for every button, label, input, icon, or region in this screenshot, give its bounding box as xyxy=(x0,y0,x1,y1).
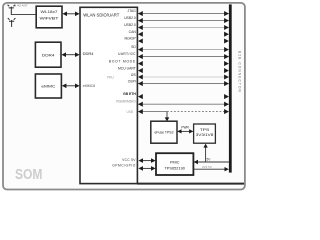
svg-text:MCU UART: MCU UART xyxy=(118,66,136,70)
svg-text:eMMC: eMMC xyxy=(41,84,55,88)
svg-text:SD: SD xyxy=(131,45,136,49)
svg-text:SOM: SOM xyxy=(15,166,43,183)
svg-text:TPS: TPS xyxy=(200,128,211,132)
svg-text:VCC 5V: VCC 5V xyxy=(122,158,136,162)
svg-text:UART/I2C: UART/I2C xyxy=(118,52,136,56)
svg-text:GB ETH: GB ETH xyxy=(123,92,136,96)
svg-text:PRU: PRU xyxy=(107,76,114,80)
svg-text:3V3/1V8: 3V3/1V8 xyxy=(196,133,214,137)
svg-text:WLAN SDIO/UART: WLAN SDIO/UART xyxy=(83,12,119,17)
svg-text:USB: USB xyxy=(126,110,133,114)
svg-text:CAN: CAN xyxy=(129,30,137,34)
svg-text:PWR: PWR xyxy=(181,126,189,130)
svg-text:WiFi/BT: WiFi/BT xyxy=(40,16,60,20)
svg-text:RGMII/MDIO: RGMII/MDIO xyxy=(116,99,136,103)
svg-text:B2B CONNECTOR: B2B CONNECTOR xyxy=(237,51,241,93)
svg-text:BOOT MODE: BOOT MODE xyxy=(109,59,136,63)
svg-text:JTAG: JTAG xyxy=(127,9,136,13)
svg-text:I2S: I2S xyxy=(131,73,137,77)
svg-text:eFuse TPS2: eFuse TPS2 xyxy=(155,130,174,134)
svg-text:WL18x7: WL18x7 xyxy=(41,10,58,14)
svg-text:DDR4: DDR4 xyxy=(83,51,95,56)
svg-text:eMMC8: eMMC8 xyxy=(83,84,96,88)
svg-text:OSPI: OSPI xyxy=(128,79,136,83)
svg-text:PMIC: PMIC xyxy=(170,160,180,164)
svg-text:GPMC/GPIO: GPMC/GPIO xyxy=(112,164,136,168)
svg-text:USB2.0: USB2.0 xyxy=(124,23,136,27)
svg-text:DDR4: DDR4 xyxy=(42,53,55,57)
svg-text:USB2.0: USB2.0 xyxy=(124,16,136,20)
svg-text:McASP: McASP xyxy=(124,37,136,41)
svg-text:TPS652190: TPS652190 xyxy=(164,165,185,170)
svg-text:3V3 5V: 3V3 5V xyxy=(202,165,212,169)
svg-text:2.4G ANT: 2.4G ANT xyxy=(15,4,28,8)
